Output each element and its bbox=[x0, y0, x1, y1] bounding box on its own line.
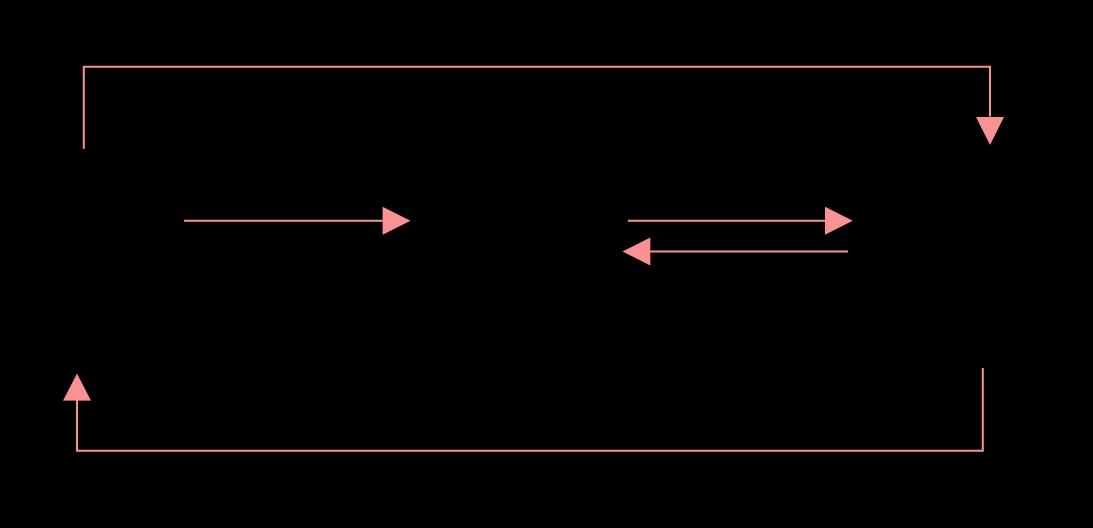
wire top feedback loop (left box top to right box top) bbox=[84, 67, 1004, 149]
arrow right-to-middle bbox=[623, 238, 849, 266]
wire bottom feedback loop (right box bottom to left box bottom) bbox=[63, 368, 983, 451]
arrow middle-to-right bbox=[628, 207, 853, 235]
arrow left-to-middle bbox=[184, 207, 411, 235]
